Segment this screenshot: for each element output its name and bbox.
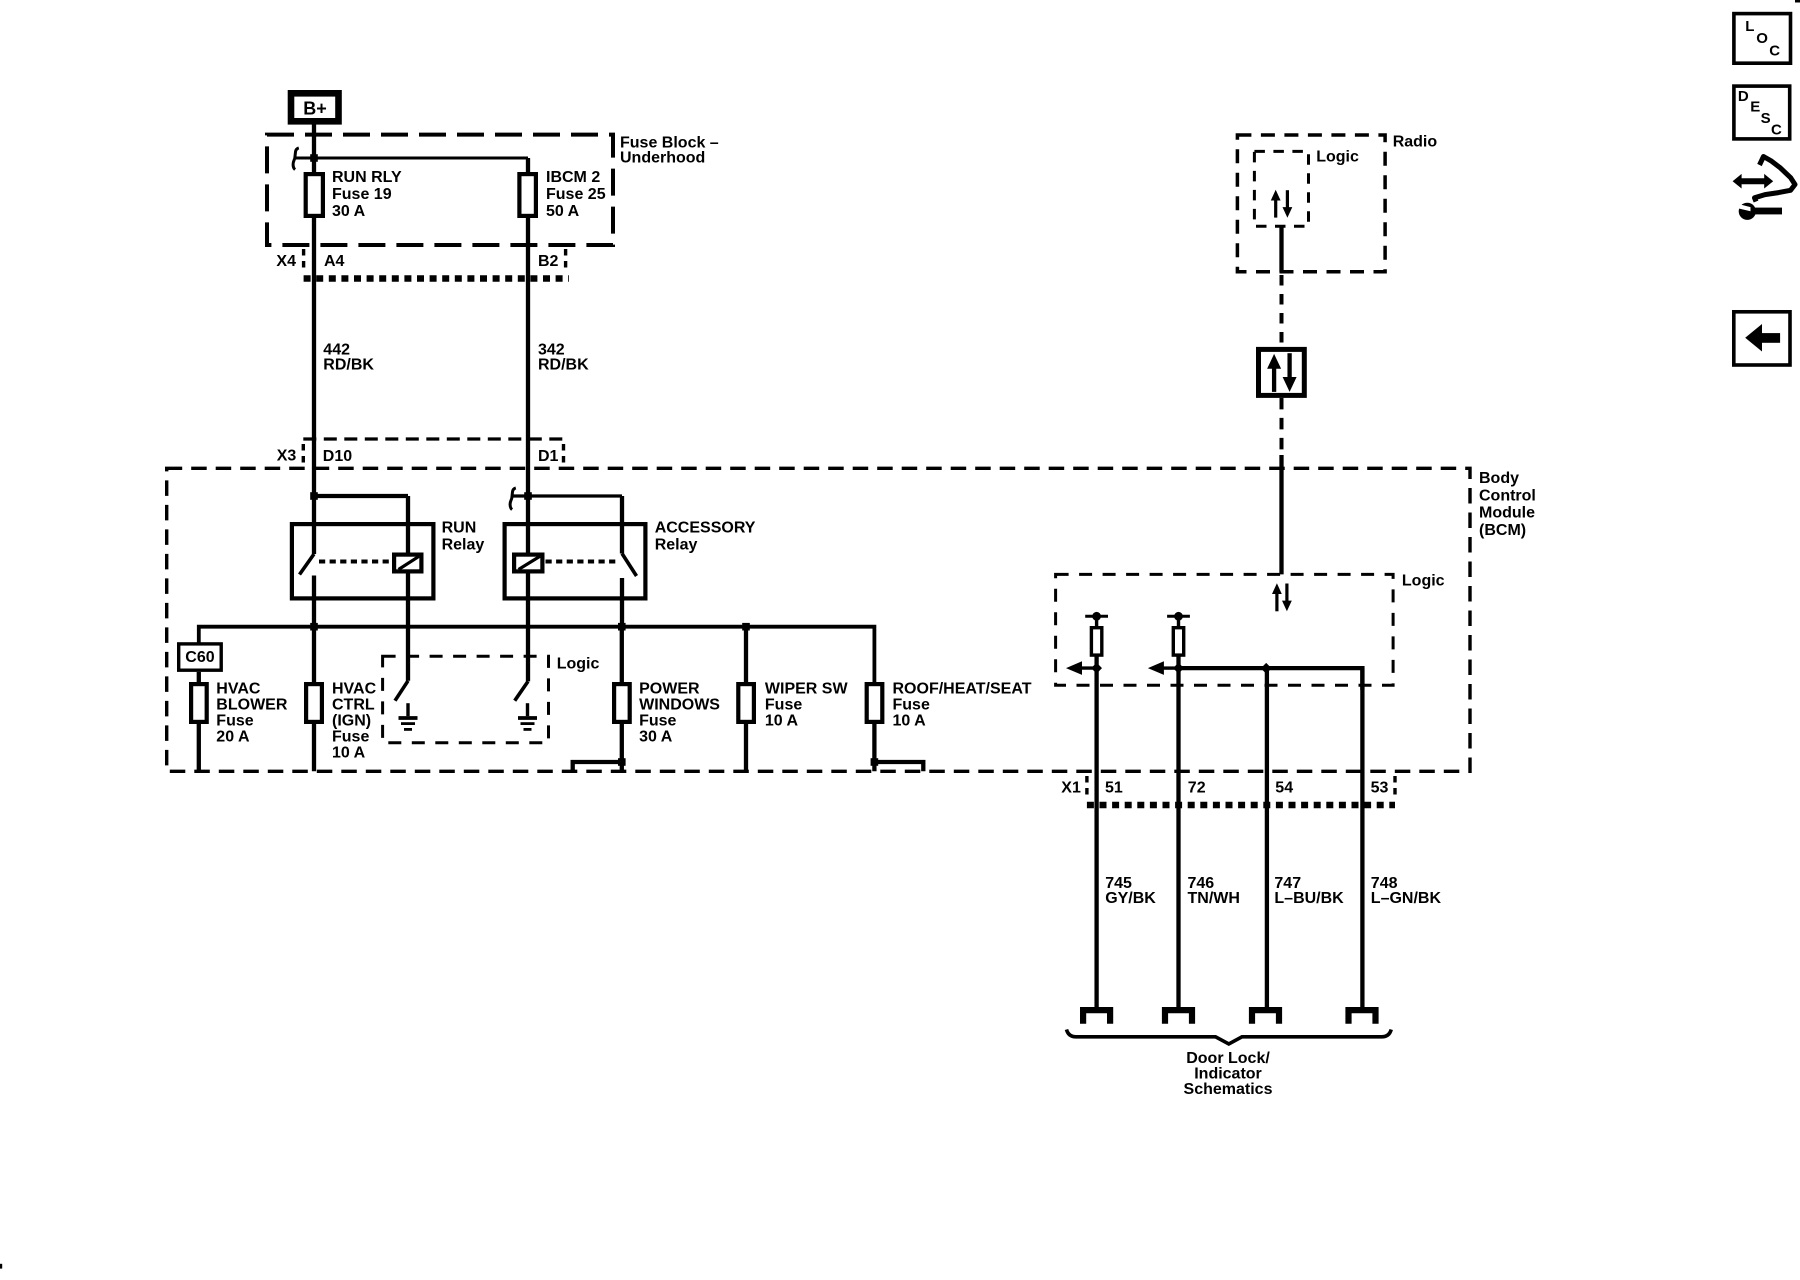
- svg-text:D: D: [1738, 88, 1749, 105]
- svg-text:D10: D10: [323, 448, 352, 465]
- svg-text:10 A: 10 A: [332, 744, 366, 761]
- svg-text:O: O: [1756, 30, 1768, 47]
- svg-text:Relay: Relay: [442, 536, 485, 553]
- svg-text:Schematics: Schematics: [1184, 1081, 1273, 1098]
- svg-text:Relay: Relay: [655, 537, 698, 554]
- svg-text:E: E: [1750, 99, 1760, 116]
- svg-text:WIPER SW: WIPER SW: [765, 680, 849, 697]
- svg-text:L–GN/BK: L–GN/BK: [1371, 890, 1442, 907]
- svg-text:Logic: Logic: [557, 656, 600, 673]
- svg-text:BLOWER: BLOWER: [216, 696, 288, 713]
- svg-text:B2: B2: [538, 253, 559, 270]
- svg-text:ACCESSORY: ACCESSORY: [655, 520, 756, 537]
- svg-text:D1: D1: [538, 448, 559, 465]
- svg-text:B+: B+: [303, 99, 327, 119]
- svg-text:Fuse: Fuse: [893, 696, 930, 713]
- svg-text:TN/WH: TN/WH: [1188, 890, 1240, 907]
- svg-text:RUN RLY: RUN RLY: [332, 169, 402, 186]
- svg-text:L: L: [1745, 18, 1754, 35]
- svg-text:Indicator: Indicator: [1194, 1065, 1262, 1082]
- svg-text:30 A: 30 A: [639, 728, 673, 745]
- svg-text:C60: C60: [185, 649, 214, 666]
- svg-text:Logic: Logic: [1316, 149, 1359, 166]
- svg-text:S: S: [1761, 110, 1771, 127]
- svg-text:ROOF/HEAT/SEAT: ROOF/HEAT/SEAT: [893, 680, 1032, 697]
- svg-text:C: C: [1769, 42, 1780, 59]
- svg-text:X4: X4: [276, 253, 296, 270]
- svg-text:Fuse 25: Fuse 25: [546, 186, 606, 203]
- svg-text:10 A: 10 A: [893, 712, 927, 729]
- svg-text:C: C: [1771, 122, 1782, 139]
- svg-text:10 A: 10 A: [765, 712, 799, 729]
- svg-text:50 A: 50 A: [546, 203, 580, 220]
- svg-text:Fuse: Fuse: [332, 728, 369, 745]
- svg-text:30 A: 30 A: [332, 203, 366, 220]
- svg-text:CTRL: CTRL: [332, 696, 375, 713]
- svg-text:20 A: 20 A: [216, 728, 250, 745]
- svg-text:Underhood: Underhood: [620, 150, 705, 167]
- svg-text:Module: Module: [1479, 505, 1535, 522]
- svg-text:RD/BK: RD/BK: [538, 357, 589, 374]
- svg-text:HVAC: HVAC: [216, 680, 261, 697]
- svg-text:RD/BK: RD/BK: [323, 357, 374, 374]
- svg-text:X3: X3: [277, 448, 297, 465]
- svg-text:Body: Body: [1479, 470, 1519, 487]
- svg-text:72: 72: [1188, 780, 1206, 797]
- svg-text:POWER: POWER: [639, 680, 700, 697]
- svg-text:A4: A4: [324, 253, 345, 270]
- svg-text:(BCM): (BCM): [1479, 522, 1526, 539]
- svg-text:54: 54: [1275, 780, 1293, 797]
- svg-text:Fuse 19: Fuse 19: [332, 186, 392, 203]
- svg-text:Control: Control: [1479, 487, 1536, 504]
- svg-text:Fuse: Fuse: [639, 712, 676, 729]
- svg-text:51: 51: [1105, 780, 1123, 797]
- svg-text:WINDOWS: WINDOWS: [639, 696, 720, 713]
- svg-text:GY/BK: GY/BK: [1105, 890, 1156, 907]
- svg-text:RUN: RUN: [442, 520, 477, 537]
- svg-text:Logic: Logic: [1402, 572, 1445, 589]
- svg-text:Radio: Radio: [1393, 134, 1438, 151]
- svg-text:HVAC: HVAC: [332, 680, 377, 697]
- svg-text:Fuse: Fuse: [216, 712, 253, 729]
- svg-text:(IGN): (IGN): [332, 712, 371, 729]
- svg-text:Fuse: Fuse: [765, 696, 802, 713]
- svg-text:IBCM 2: IBCM 2: [546, 169, 600, 186]
- svg-text:X1: X1: [1061, 780, 1081, 797]
- svg-text:L–BU/BK: L–BU/BK: [1274, 890, 1344, 907]
- svg-text:53: 53: [1371, 780, 1389, 797]
